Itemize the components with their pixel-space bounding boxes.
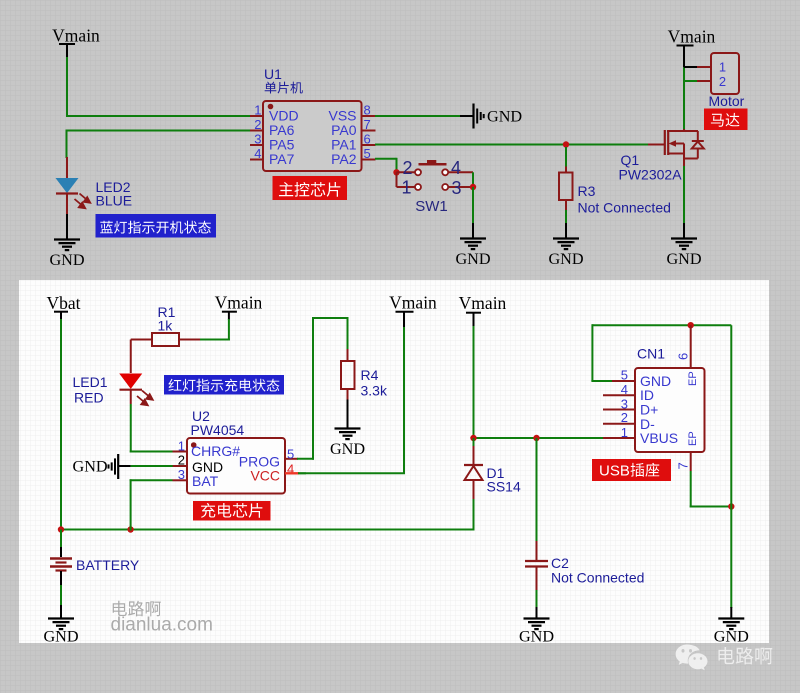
svg-text:Vmain: Vmain [52, 26, 100, 46]
svg-text:BLUE: BLUE [96, 193, 133, 209]
svg-text:2: 2 [621, 410, 628, 425]
svg-text:CHRG#: CHRG# [191, 443, 240, 459]
svg-text:1: 1 [254, 103, 261, 118]
svg-text:5: 5 [621, 367, 628, 382]
svg-text:GND: GND [519, 628, 554, 646]
svg-text:BATTERY: BATTERY [76, 557, 140, 573]
svg-text:R3: R3 [578, 183, 596, 199]
svg-text:2: 2 [254, 117, 261, 132]
svg-text:1: 1 [621, 425, 628, 440]
svg-text:1: 1 [401, 178, 411, 198]
svg-text:4: 4 [254, 146, 261, 161]
svg-text:PA7: PA7 [269, 151, 295, 167]
svg-text:PA2: PA2 [331, 151, 357, 167]
svg-text:EP: EP [687, 371, 699, 386]
svg-text:EP: EP [687, 431, 699, 446]
svg-text:1: 1 [719, 60, 726, 75]
svg-text:2: 2 [402, 158, 412, 178]
svg-text:Vmain: Vmain [668, 27, 716, 47]
svg-text:5: 5 [364, 146, 371, 161]
svg-text:U1: U1 [264, 66, 282, 82]
svg-text:GND: GND [330, 440, 365, 458]
svg-text:Vbat: Vbat [46, 293, 80, 313]
svg-text:5: 5 [287, 446, 294, 461]
svg-text:Vmain: Vmain [389, 293, 437, 313]
svg-text:LED1: LED1 [73, 374, 108, 390]
svg-text:1k: 1k [158, 318, 174, 334]
svg-text:4: 4 [451, 158, 461, 178]
svg-text:PW4054: PW4054 [191, 422, 245, 438]
svg-text:GND: GND [714, 628, 749, 646]
svg-text:RED: RED [74, 390, 104, 406]
svg-text:GND: GND [49, 251, 84, 269]
svg-text:PW2302A: PW2302A [619, 167, 683, 183]
svg-text:USB: USB [599, 463, 630, 480]
svg-text:3: 3 [178, 467, 185, 482]
svg-text:8: 8 [364, 103, 371, 118]
svg-text:GND: GND [548, 250, 583, 268]
svg-text:6: 6 [676, 353, 691, 360]
svg-text:GND: GND [455, 250, 490, 268]
svg-text:1: 1 [178, 439, 185, 454]
svg-text:GND: GND [487, 108, 522, 126]
svg-text:SS14: SS14 [487, 479, 521, 495]
svg-text:3: 3 [254, 132, 261, 147]
svg-text:BAT: BAT [192, 473, 219, 489]
svg-text:Not Connected: Not Connected [578, 200, 671, 216]
svg-text:2: 2 [719, 74, 726, 89]
svg-text:GND: GND [73, 458, 108, 476]
svg-text:7: 7 [364, 117, 371, 132]
svg-text:GND: GND [43, 628, 78, 646]
svg-text:SW1: SW1 [415, 198, 448, 215]
svg-text:Vmain: Vmain [459, 293, 507, 313]
svg-text:CN1: CN1 [637, 346, 665, 362]
svg-text:7: 7 [676, 462, 691, 469]
svg-text:VCC: VCC [250, 468, 280, 484]
svg-text:GND: GND [666, 250, 701, 268]
svg-text:3.3k: 3.3k [361, 383, 388, 399]
svg-text:6: 6 [364, 132, 371, 147]
svg-text:4: 4 [621, 382, 628, 397]
svg-text:Motor: Motor [709, 93, 745, 109]
svg-text:R4: R4 [361, 367, 379, 383]
svg-text:3: 3 [452, 178, 462, 198]
svg-text:Vmain: Vmain [215, 293, 263, 313]
svg-text:Not Connected: Not Connected [551, 570, 644, 586]
svg-text:2: 2 [178, 452, 185, 467]
svg-text:VBUS: VBUS [640, 430, 678, 446]
svg-text:dianlua.com: dianlua.com [111, 615, 213, 636]
